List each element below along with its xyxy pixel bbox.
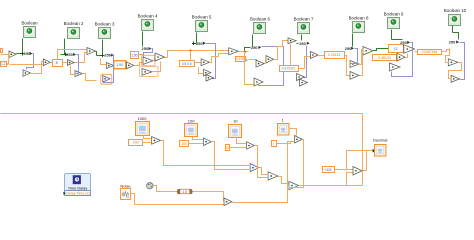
NOT gate gS [266,56,274,63]
wire blue loop stage1 [27,54,34,70]
wire branch up to Decimal [347,151,373,170]
long wire horizontal [1,113,363,115]
wire branch to final gate [347,173,354,186]
svg-text:0.0087654: 0.0087654 [422,50,438,54]
svg-text:Boolean 4: Boolean 4 [138,14,158,19]
svg-text:Boolean 3: Boolean 3 [95,22,115,27]
wire 1 const to gate [277,142,295,144]
multiply gate noise [224,198,232,206]
wait 250 marker #7 [299,41,309,46]
wire junction stub 2 [61,54,67,56]
wire 1000 icon to gate [144,136,152,139]
NOT gate gB [23,70,31,77]
NOT gate gO2 [206,75,214,82]
svg-text:Delay Time (s): Delay Time (s) [66,192,89,196]
multiply gate 1 [295,136,303,144]
wire blue stage7 [392,43,413,77]
wire 10 const to gate [230,147,247,149]
long wire vertical [362,114,364,186]
wire X5 to gN [195,62,202,64]
wire top feed gF [58,50,88,60]
multiplier icon 100 [185,118,198,136]
dice icon [147,183,153,189]
svg-text:0.480.53: 0.480.53 [378,56,391,60]
svg-text:1.50: 1.50 [131,54,137,58]
boolean control Boolean 7 [294,17,314,34]
numeric constant +420 [323,167,335,173]
wire a3 out to long riser [299,185,363,187]
boolean control Boolean 9 [384,12,404,29]
wire blue stage6 [351,49,358,64]
wire +420 to final gate [335,169,354,171]
wire gM2 out long [165,51,229,58]
wire boolean drop 10 [452,26,454,33]
wire gN out [210,54,229,63]
AND gate gM2 [155,53,165,61]
svg-text:0.875421: 0.875421 [282,67,296,71]
AND gate gT high [288,38,296,44]
wait 250 marker #3 [104,53,113,58]
svg-text:Boolean 6: Boolean 6 [250,17,270,22]
indicator arrow Decimal [373,149,376,153]
wait 250 marker #6 [251,45,261,50]
wire blue big loop stage5 [259,47,284,86]
wire 1 icon to gate [289,129,297,136]
wire gG inputs [101,59,107,65]
wire g8a input [446,50,450,63]
boolean control Boolean 5 [192,15,212,32]
wire boolean drop 7 [301,35,303,41]
svg-text:+420: +420 [324,168,332,172]
boolean control Boolean 8 [349,16,369,33]
int constant X10 [389,45,404,53]
add gate a1 [250,164,258,172]
multiply gate 10 [247,142,255,150]
loop frame gM1 [142,55,156,66]
multiplier icon 1 [278,118,290,135]
boolean control Boolean 3 [95,22,115,39]
add gate final [353,167,362,176]
AND gate gP [229,48,239,55]
wire boolean 10 exit [453,33,459,40]
svg-text:100: 100 [188,118,195,123]
wire final out up [363,151,367,171]
NOT gate gW [350,72,359,80]
constant X7 [280,66,299,72]
wire junction stub 3 [97,55,105,57]
wire boolean drop 1 [22,39,24,54]
svg-text:10: 10 [226,146,230,150]
wire blue stage5 drop [298,46,307,78]
wire blue stage3 loop [104,55,114,83]
wire gT out [297,43,299,45]
svg-text:1.5: 1.5 [182,190,187,194]
wire junction mark 3 [100,54,103,57]
wire X8 out [345,56,351,76]
svg-text:8:: 8: [56,61,59,65]
NOT gate g7a [397,53,405,61]
junction dot [189,49,191,51]
svg-text:250: 250 [251,45,258,50]
wire dice to pill [154,186,178,192]
multiply gate 1000 [152,137,161,145]
wire boolean drop 3 [102,40,104,56]
svg-text:100: 100 [181,142,187,146]
boolean control Boolean 10 [444,8,467,26]
wait 250 marker #5 [196,41,206,46]
wire gA input [1,54,10,56]
svg-text:0.5 0.5: 0.5 0.5 [182,62,192,66]
wire gF out [96,52,97,56]
svg-text:Decimal: Decimal [373,138,388,143]
wire 100gate to a1 [212,142,251,170]
wire gD out to gF [75,53,88,63]
wire pill to gate [193,192,225,201]
wire gP out [239,48,251,52]
wire junction mark 1 [20,52,23,55]
loop frame around gI [101,74,112,84]
NOT gate g8a [448,59,458,66]
wire a1 to a2 [259,168,269,175]
wire g6 outs [360,50,364,76]
constant X6 [236,57,246,62]
wire boolean drop 5 [196,33,198,44]
numeric constant 10 [226,145,230,151]
junction dot stage4 [244,51,246,53]
wait 250 marker #1 [24,51,33,56]
NOT gate gQ [256,60,264,67]
svg-text:250: 250 [104,53,111,58]
wire left bus [8,53,10,65]
wire gP out across [239,51,249,53]
svg-text:Boolean 2: Boolean 2 [64,21,84,26]
wire boolean drop 8 [352,34,354,47]
svg-text:10: 10 [233,118,238,123]
wire 1gate to a3 [289,140,304,188]
wire boolean drop 4 [142,32,144,47]
wire 1000gate to a1 [161,141,251,166]
junction dot final [346,169,348,171]
multiplier icon 10 [229,118,242,137]
wire X7 to gV [299,57,311,69]
constant X5 [180,61,195,67]
svg-text:12: 12 [394,47,398,51]
constant X11 [418,50,442,55]
svg-text:250: 250 [196,41,203,46]
constant X8 [325,52,345,59]
wire junction down to X5 [190,51,192,61]
NOT gate gN [201,59,209,66]
svg-text:1: 1 [273,142,275,146]
wire gQ to gS [265,60,267,64]
svg-text:Boolean 7: Boolean 7 [294,17,314,22]
svg-text:0.976: 0.976 [236,57,244,61]
wire a2 to a3 [278,177,289,184]
constant X9 [373,55,397,61]
svg-text:Noise: Noise [120,183,131,188]
indicator Decimal [373,138,388,156]
multiply gate 100 [204,138,212,146]
noise source icon [120,183,131,199]
coercion arrow [7,63,9,66]
NOT gate gD [67,60,74,66]
svg-text:250: 250 [345,46,352,51]
constant X4 [131,52,139,59]
wire g8a out [449,63,462,79]
svg-text:Boolean 5: Boolean 5 [192,15,212,20]
wire 10 icon to gate [237,138,247,144]
wait 250 marker #4 [142,46,152,51]
wire gE out [83,74,97,81]
wire junction mark 4 [192,42,195,45]
wire gC to X2 [51,62,53,64]
svg-text:Boolean: Boolean [21,21,38,26]
wait 250 marker #9 [400,40,410,45]
NOT gate gU [297,74,305,81]
wire X11 out [442,50,450,52]
wire X6 to gQ [249,60,257,63]
svg-text:1000: 1000 [132,141,139,145]
wire gM1 to gM2 [154,58,155,61]
svg-text:Boolean 10: Boolean 10 [444,8,467,13]
wire junction stub 5 [194,43,197,45]
wire g8head to X11 [415,51,418,53]
wire blue stage8 [460,43,465,80]
NOT gate gV [311,52,319,59]
AND gate gF [87,48,95,55]
wait 250 marker #2 [66,52,76,57]
boolean control Boolean 6 [250,17,270,34]
wait 250 marker #10 [449,40,459,45]
NOT gate gM3 [142,69,152,76]
boolean control Boolean [21,21,38,38]
wire 100 const to gate [189,143,204,145]
wire g7head out [374,49,389,51]
NOT gate gR [254,78,263,86]
svg-text:250: 250 [142,46,149,51]
NOT gate gH [127,62,134,69]
comparison box X2 [53,60,63,67]
wire blue stage2 loop [76,55,79,74]
NOT gate gI [103,76,110,82]
wire left to gC [10,64,44,66]
boolean control Boolean 4 [138,14,158,31]
AND gate g7head [363,47,373,56]
boolean control Boolean 2 [64,21,84,39]
wire gT down feed [290,44,292,66]
wire gB out [31,62,44,74]
wire gO input [199,68,204,74]
wire boolean 9 exit [392,39,403,41]
wire violet hook M4 [144,49,153,59]
wire gM3 out [153,62,161,72]
multiplier icon 1000 [136,116,150,135]
coercion arrow X6 [246,58,249,61]
wire boolean drop 2 [64,39,66,55]
selected constant X3 [114,61,126,69]
express VI Time Delay [63,174,90,196]
wire X4 out [139,54,144,56]
wire blue stage4 loop [206,44,216,79]
NOT gate gU2 [300,79,308,86]
wire 1000 const to gate [143,142,152,144]
wire 10gate to a2 [255,146,269,178]
wire boolean drop 9 [391,30,393,40]
add gate a2 [268,172,278,180]
NOT gate gG [107,63,114,69]
NOT gate gE [75,71,82,77]
wire X3 to gH [126,64,127,66]
cut constant top-left [1,49,3,53]
wire 100 icon to gate [193,137,204,140]
wire gS out up [274,41,289,60]
add gate a3 [289,181,299,189]
svg-text:1.2: 1.2 [1,62,6,66]
wire noise to gate [131,194,225,205]
pill component [177,189,192,194]
wire boolean drop 6 [252,35,254,47]
wire X2 to gD [63,62,68,64]
svg-text:1000: 1000 [138,116,148,121]
svg-text:1.50: 1.50 [116,63,123,67]
numeric constant 1000 [129,140,143,146]
NOT gate gO [204,69,211,76]
svg-text:Time Delay: Time Delay [68,186,88,191]
NOT gate gC [43,59,50,66]
wire junction stub 1 [17,53,25,55]
NOT gate gA [9,51,16,58]
wait 250 marker #8 [345,46,354,51]
loop frame lower [140,67,159,77]
wire junction mark 2 [64,53,67,56]
AND gate g8head [404,45,415,53]
svg-text:250: 250 [299,41,306,46]
wire gE input [71,66,76,75]
numeric constant 100 [180,141,189,147]
wire noise gate out [233,142,295,203]
numeric constant 1 [272,141,277,147]
NOT gate g8b [451,75,459,82]
svg-text:Boolean 8: Boolean 8 [349,16,369,21]
NOT gate gM1 [143,57,153,65]
NOT gate g6a [350,61,359,68]
wire gH to gM1 [134,63,144,66]
svg-text:250: 250 [449,40,456,45]
junction dot stage8 [449,49,451,51]
cut constant left [1,62,7,67]
wire gV out to X8 [319,55,325,57]
wire stage4 down [245,52,255,85]
svg-text:0.00413: 0.00413 [328,53,340,57]
svg-text:Boolean 9: Boolean 9 [384,12,404,17]
NOT gate g7b [390,63,401,71]
wire g7a to g8head [406,54,408,58]
